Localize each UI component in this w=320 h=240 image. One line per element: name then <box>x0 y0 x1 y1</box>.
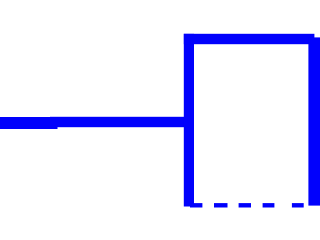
box: dashed bottom, dash 3 <box>239 203 251 207</box>
box: dashed bottom, dash 2 <box>214 203 228 207</box>
box: left side <box>184 34 194 207</box>
box: dashed bottom, dash 1 <box>190 203 202 207</box>
box: right side <box>308 37 320 205</box>
box: dashed bottom, dash 4 <box>263 203 275 207</box>
wire: left horizontal segment <box>0 117 58 129</box>
box: top side <box>184 34 315 44</box>
box: dashed bottom, dash 5 <box>292 203 304 207</box>
wire: right horizontal segment <box>50 117 194 127</box>
